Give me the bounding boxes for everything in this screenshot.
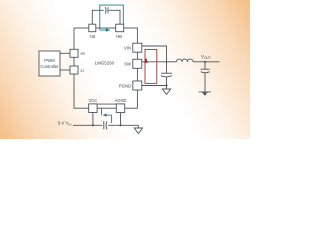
wire HS to bootstrap cap	[92, 10, 103, 24]
svg-text:HB: HB	[116, 34, 122, 39]
wire SW to inductor	[142, 61, 177, 63]
wire PWM to LI	[60, 69, 70, 71]
svg-text:AGND: AGND	[114, 98, 126, 103]
svg-text:PWM: PWM	[44, 58, 55, 63]
pin box VCC	[89, 104, 97, 113]
pin box PGND	[133, 81, 142, 90]
pin box LI	[70, 66, 78, 74]
wire input cap to PGND node	[166, 77, 168, 86]
power loop arrowhead (red)	[144, 58, 148, 63]
ground PGND (open triangle)	[162, 86, 170, 95]
svg-text:VOUT: VOUT	[201, 54, 211, 60]
junction AGND / rail	[119, 124, 121, 126]
capacitor CVCC bypass on rail	[104, 121, 107, 129]
pin box HS	[89, 24, 96, 32]
inductor L	[177, 59, 194, 62]
svg-text:LI: LI	[81, 68, 85, 73]
svg-text:HS: HS	[90, 34, 96, 39]
svg-text:LMG5200: LMG5200	[95, 61, 115, 66]
wire VCC down to rail	[92, 113, 94, 126]
PWM controller box	[39, 51, 60, 76]
IC U1 LMG5200 outline	[74, 28, 137, 108]
svg-text:5-V VIN: 5-V VIN	[58, 121, 72, 127]
capacitor CBST bootstrap	[105, 7, 108, 13]
junction VOUT node	[204, 61, 206, 63]
ground 5V rail (open triangle)	[134, 125, 142, 133]
power loop (red)	[145, 49, 157, 83]
svg-text:HI: HI	[81, 51, 85, 56]
wire 5V rail right segment	[108, 124, 138, 126]
svg-text:PGND: PGND	[119, 83, 131, 88]
pin box VIN	[133, 43, 142, 52]
wire bootstrap cap to HB	[109, 10, 120, 24]
wire 5V rail left segment	[73, 124, 102, 126]
ground VOUT (bar + filled triangle)	[199, 91, 211, 93]
capacitor COUT output	[204, 62, 206, 69]
pin box HI	[70, 49, 78, 57]
bootstrap loop arrowhead	[106, 28, 111, 32]
VCC bypass current loop (teal)	[97, 103, 116, 105]
svg-text:Controller: Controller	[40, 64, 59, 69]
svg-text:VCC: VCC	[88, 98, 97, 103]
bootstrap current loop (teal)	[100, 5, 124, 30]
wire PWM to HI	[60, 52, 70, 54]
junction input cap / PGND	[165, 84, 167, 86]
pin box HB	[116, 24, 124, 32]
pin box SW	[133, 59, 142, 68]
wire AGND down to rail	[120, 113, 122, 126]
svg-text:VIN: VIN	[124, 45, 131, 50]
wire inductor to VOUT	[193, 61, 220, 63]
wire VIN to input cap	[142, 46, 167, 73]
wire PGND to node	[142, 85, 167, 87]
pin box AGND	[116, 104, 124, 113]
VCC loop arrowhead (teal)	[103, 113, 107, 116]
capacitor CIN input	[161, 73, 172, 77]
svg-text:SW: SW	[124, 61, 131, 66]
junction VCC / rail	[92, 124, 94, 126]
